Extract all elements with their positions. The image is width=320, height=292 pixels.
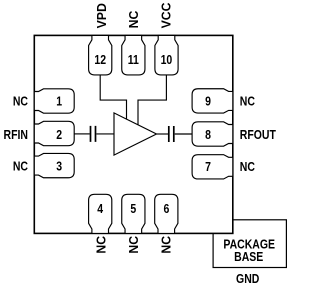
svg-text:11: 11	[128, 53, 140, 67]
wire VPD pin12 to amp	[100, 75, 126, 120]
svg-text:BASE: BASE	[234, 250, 263, 264]
package body outline	[34, 35, 233, 233]
svg-text:NC: NC	[13, 160, 29, 174]
svg-text:NC: NC	[94, 236, 108, 254]
svg-text:8: 8	[205, 128, 211, 142]
svg-text:NC: NC	[240, 95, 256, 109]
wire C2 to RFOUT pin8	[175, 133, 193, 135]
svg-text:1: 1	[56, 95, 62, 109]
pin 5	[122, 194, 145, 233]
svg-text:NC: NC	[159, 236, 173, 254]
svg-text:7: 7	[205, 160, 211, 174]
wire RFIN pin2 to C1	[74, 133, 90, 135]
pin 12	[89, 35, 112, 75]
pin 3	[34, 153, 74, 177]
wire VCC pin10 to amp	[138, 75, 166, 125]
svg-text:NC: NC	[13, 95, 29, 109]
pin 1	[34, 89, 74, 113]
svg-text:VPD: VPD	[95, 3, 109, 28]
capacitor C1	[91, 126, 96, 142]
svg-text:9: 9	[205, 95, 211, 109]
svg-text:RFOUT: RFOUT	[240, 128, 277, 142]
svg-text:GND: GND	[236, 272, 259, 286]
pin 2	[34, 121, 74, 145]
pin 10	[155, 35, 178, 75]
svg-text:NC: NC	[127, 11, 141, 29]
svg-text:10: 10	[161, 53, 173, 67]
pin 8	[192, 122, 233, 146]
pin 6	[155, 194, 178, 233]
wire amp output to C2	[157, 133, 169, 135]
wire C1 to amp input	[96, 133, 114, 135]
svg-text:VCC: VCC	[159, 2, 173, 28]
svg-text:NC: NC	[240, 160, 256, 174]
op-amp U1	[114, 113, 157, 155]
svg-text:3: 3	[56, 160, 62, 174]
svg-text:2: 2	[56, 128, 62, 142]
svg-text:12: 12	[94, 53, 106, 67]
pin 11	[122, 35, 145, 75]
pin 9	[192, 89, 233, 113]
pin 7	[192, 155, 233, 179]
pin 4	[89, 194, 112, 233]
package base box	[213, 220, 286, 268]
svg-text:4: 4	[97, 202, 103, 216]
svg-text:6: 6	[163, 202, 169, 216]
capacitor C2	[169, 126, 174, 142]
svg-text:NC: NC	[127, 236, 141, 254]
svg-text:5: 5	[130, 202, 136, 216]
svg-text:RFIN: RFIN	[4, 128, 28, 142]
